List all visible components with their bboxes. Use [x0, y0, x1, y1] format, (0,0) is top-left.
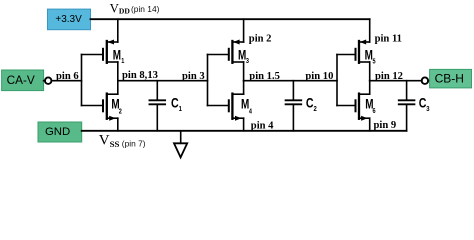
svg-text:5: 5	[373, 58, 376, 66]
svg-text:2: 2	[314, 105, 317, 113]
VSS rail (pin 7 net)	[82, 130, 407, 132]
node gate bus inverter 3	[336, 55, 338, 106]
svg-text:pin 12: pin 12	[375, 71, 403, 82]
transistor M3 (PMOS)	[208, 19, 250, 80]
svg-text:4: 4	[249, 108, 252, 116]
transistor M5 (PMOS)	[337, 19, 376, 80]
wire output node pin 8,13 to inverter2 gate bus	[118, 80, 208, 82]
svg-text:pin 2: pin 2	[249, 34, 272, 45]
wire output node pin 1,5 to inverter3 gate bus	[244, 80, 337, 82]
transistor M6 (NMOS)	[337, 81, 376, 131]
transistor M2 (NMOS)	[82, 81, 123, 131]
svg-text:M: M	[365, 47, 373, 63]
svg-text:1: 1	[179, 105, 182, 113]
svg-text:3: 3	[246, 57, 249, 65]
ground reference box GND	[38, 122, 82, 142]
input terminal circle	[45, 77, 52, 84]
svg-text:pin 1.5: pin 1.5	[249, 71, 280, 82]
ground symbol	[174, 131, 187, 158]
wire output node pin 12 to output terminal	[370, 80, 422, 82]
svg-text:pin 3: pin 3	[182, 71, 205, 82]
wire circle to CB-H box	[428, 80, 430, 82]
svg-text:1: 1	[121, 57, 124, 65]
svg-text:M: M	[241, 96, 249, 112]
label VDD (pin 14)	[110, 1, 160, 15]
svg-text:(pin 7): (pin 7)	[122, 138, 146, 148]
svg-text:CA-V: CA-V	[7, 73, 35, 87]
svg-text:VSS: VSS	[99, 133, 120, 150]
VDD rail (pin 14 net)	[91, 18, 370, 20]
svg-text:6: 6	[373, 107, 376, 115]
wire CA-V box to circle	[44, 80, 46, 82]
svg-text:pin 8,13: pin 8,13	[122, 70, 158, 81]
svg-text:(pin 14): (pin 14)	[131, 4, 160, 14]
svg-text:M: M	[238, 47, 246, 63]
svg-text:C: C	[419, 95, 427, 111]
transistor M4 (NMOS)	[208, 81, 253, 131]
svg-text:pin 6: pin 6	[56, 71, 79, 82]
svg-text:+3.3V: +3.3V	[55, 14, 82, 25]
power source box +3.3V	[48, 9, 91, 30]
svg-text:CB-H: CB-H	[435, 72, 464, 86]
label VSS (pin 7)	[99, 133, 146, 150]
svg-text:3: 3	[426, 105, 429, 113]
svg-text:pin 9: pin 9	[374, 120, 397, 131]
capacitor C2	[286, 81, 317, 131]
capacitor C1	[150, 81, 183, 131]
svg-text:C: C	[171, 95, 179, 111]
svg-text:2: 2	[119, 108, 122, 116]
svg-text:C: C	[306, 95, 314, 111]
input terminal box CA-V	[2, 70, 44, 91]
svg-text:GND: GND	[45, 126, 70, 138]
output terminal circle	[422, 77, 429, 84]
node gate bus inverter 2	[207, 55, 209, 106]
transistor M1 (PMOS)	[82, 19, 125, 80]
output terminal box CB-H	[430, 69, 472, 88]
node gate bus inverter 1	[81, 55, 83, 106]
wire pin 6 input to inverter1 gate bus	[51, 80, 81, 82]
svg-text:pin 10: pin 10	[305, 71, 333, 82]
svg-text:pin 11: pin 11	[375, 34, 402, 45]
capacitor C3	[399, 81, 430, 131]
svg-text:VDD: VDD	[110, 1, 131, 15]
svg-text:M: M	[113, 47, 121, 63]
